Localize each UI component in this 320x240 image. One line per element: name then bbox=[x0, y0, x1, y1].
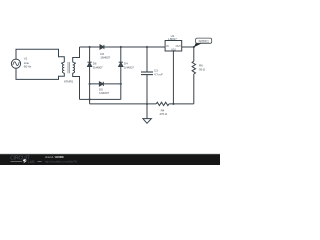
C3 labels bbox=[154, 69, 163, 77]
svg-text:LM317: LM317 bbox=[168, 37, 177, 41]
resistor R4 bbox=[156, 102, 169, 105]
node dot middle-right bbox=[120, 83, 122, 85]
diode D5 bbox=[99, 82, 103, 86]
wire output down to R6 bbox=[193, 47, 195, 61]
R6 labels bbox=[199, 63, 206, 71]
transformer phase dot left bbox=[61, 62, 63, 64]
wire capacitor bottom stem bbox=[146, 75, 148, 104]
wire right bridge vertical bbox=[120, 47, 122, 99]
svg-text:OUT: OUT bbox=[176, 44, 182, 48]
wire U1 ADJ stem bbox=[172, 51, 174, 104]
transformer XFMR1 secondary winding bbox=[73, 62, 75, 73]
node dot top-left bridge bbox=[89, 46, 91, 48]
transformer XFMR1 core bbox=[68, 62, 70, 73]
svg-text:XFMR1: XFMR1 bbox=[64, 79, 74, 83]
U1 labels bbox=[166, 34, 181, 52]
svg-text:99 Ω: 99 Ω bbox=[199, 68, 206, 72]
node dot ADJ junction bbox=[172, 103, 174, 105]
svg-text:IN: IN bbox=[166, 44, 169, 48]
credit text bbox=[45, 155, 78, 163]
wire V1 bottom to transformer primary bottom bbox=[16, 68, 64, 79]
svg-text:1N4007: 1N4007 bbox=[93, 65, 103, 69]
wire secondary return to bridge bottom bbox=[80, 98, 121, 100]
svg-text:http://circuitlab.com/c6kjy7W: http://circuitlab.com/c6kjy7W bbox=[45, 159, 78, 163]
node flag NODE1 bbox=[194, 38, 212, 47]
resistor R6 bbox=[192, 61, 195, 74]
V1 labels bbox=[24, 57, 32, 69]
wire left bridge vertical bbox=[89, 47, 91, 99]
node dot output bbox=[193, 46, 195, 48]
svg-text:1N4007: 1N4007 bbox=[99, 91, 109, 95]
node dot top-right bridge bbox=[120, 46, 122, 48]
D3 labels bbox=[100, 52, 110, 59]
wire R4 right to corner bbox=[169, 103, 194, 105]
R4 labels bbox=[159, 108, 167, 115]
footer bar bbox=[0, 153, 220, 165]
diode D3 bbox=[100, 45, 104, 49]
wire top rail bbox=[80, 46, 166, 48]
svg-text:470 Ω: 470 Ω bbox=[159, 112, 167, 116]
wire bridge middle bbox=[90, 83, 121, 85]
svg-text:NODE1: NODE1 bbox=[199, 39, 210, 43]
wire secondary top to top rail bbox=[73, 47, 80, 62]
svg-text:V1: V1 bbox=[24, 57, 28, 61]
D6 labels bbox=[93, 62, 103, 70]
ground bbox=[143, 104, 152, 123]
D5 labels bbox=[99, 88, 109, 96]
node dot secondary return junction bbox=[89, 98, 91, 100]
svg-text:4.7 mF: 4.7 mF bbox=[154, 73, 163, 77]
svg-text:1N4007: 1N4007 bbox=[100, 55, 110, 59]
svg-text:60 Hz: 60 Hz bbox=[24, 65, 32, 69]
node dot middle-left bbox=[89, 83, 91, 85]
node dot capacitor top bbox=[146, 46, 148, 48]
wire secondary bottom down bbox=[73, 73, 80, 99]
op-amp regulator U1 LM317 box bbox=[165, 41, 182, 52]
transformer phase dot right bbox=[74, 62, 76, 64]
transformer XFMR1 primary winding bbox=[62, 62, 64, 73]
diode D6 bbox=[88, 62, 92, 66]
svg-text:1N4007: 1N4007 bbox=[124, 65, 134, 69]
wire V1 top to transformer primary top bbox=[16, 49, 64, 62]
svg-text:LAB: LAB bbox=[28, 159, 35, 164]
node dot ground junction bbox=[146, 103, 148, 105]
diode D4 bbox=[119, 62, 123, 66]
wire U1 OUT to node bbox=[182, 46, 194, 48]
capacitor C3 bbox=[141, 72, 153, 75]
wire bottom rail left bbox=[90, 103, 157, 105]
D4 labels bbox=[124, 62, 134, 70]
wire jog down to bottom rail bbox=[89, 99, 91, 104]
voltage source V1 bbox=[11, 59, 20, 68]
CircuitLab logo bbox=[10, 155, 41, 164]
wire capacitor top stem bbox=[146, 47, 148, 72]
wire R6 bottom to rail bbox=[193, 74, 195, 104]
